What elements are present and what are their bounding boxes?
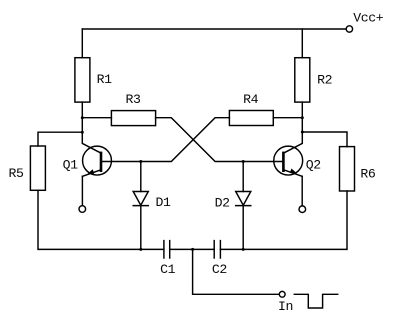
node junction R4 tap xyxy=(301,116,304,119)
svg-text:D2: D2 xyxy=(215,195,230,210)
svg-text:Q1: Q1 xyxy=(63,157,79,172)
wire R3 to Q2 base (cross link) xyxy=(156,118,282,162)
pulse waveform symbol xyxy=(294,294,337,308)
wire D2 anode lead xyxy=(242,162,244,192)
svg-text:Q2: Q2 xyxy=(306,158,321,173)
diode D1 xyxy=(133,192,148,206)
wire R2 top lead xyxy=(301,29,303,58)
resistor R5 xyxy=(30,146,45,190)
wire to R4 xyxy=(273,117,302,119)
svg-text:C2: C2 xyxy=(212,262,227,277)
node junction input tap xyxy=(191,248,194,251)
capacitor C2 xyxy=(214,241,220,258)
wire R1 bottom to Q1 collector xyxy=(82,102,100,153)
capacitor C1 xyxy=(164,241,170,258)
wire top power rail xyxy=(82,28,346,30)
svg-text:R1: R1 xyxy=(97,72,113,87)
resistor R3 xyxy=(111,111,155,126)
transistor Q1 xyxy=(82,146,111,176)
node junction D2 top xyxy=(242,160,245,163)
svg-text:R6: R6 xyxy=(360,166,376,181)
node junction R3 tap xyxy=(81,116,84,119)
svg-text:R2: R2 xyxy=(317,72,332,87)
svg-text:C1: C1 xyxy=(160,262,176,277)
Q1 emitter terminal xyxy=(79,206,86,213)
resistor R1 xyxy=(75,58,90,102)
node junction R5 tap xyxy=(81,131,84,134)
wire D2 cathode lead xyxy=(242,206,244,250)
svg-text:R5: R5 xyxy=(9,166,25,181)
wire R4 to Q1 base (cross link) xyxy=(102,118,230,162)
Q2 emitter terminal xyxy=(299,206,306,213)
wire R2 bottom to Q2 collector xyxy=(285,102,303,153)
wire R5 bottom to rail xyxy=(38,190,164,249)
resistor R4 xyxy=(229,111,273,126)
wire to R3 xyxy=(82,117,111,119)
wire D1 anode lead xyxy=(140,162,142,192)
resistor R6 xyxy=(340,147,355,191)
wire D1 cathode lead xyxy=(140,206,142,250)
node junction D1 bottom xyxy=(139,248,142,251)
svg-text:Vcc+: Vcc+ xyxy=(353,11,384,26)
node junction R6 tap xyxy=(301,131,304,134)
wire between C1 and C2 xyxy=(170,248,215,250)
Vcc+ terminal xyxy=(346,26,352,32)
svg-text:R4: R4 xyxy=(243,92,259,107)
svg-text:D1: D1 xyxy=(156,195,172,210)
svg-text:In: In xyxy=(278,299,293,314)
wire to R5 xyxy=(38,132,82,146)
resistor R2 xyxy=(295,58,310,102)
transistor Q2 xyxy=(274,146,303,176)
wire Q2 emitter lead xyxy=(301,176,303,206)
wire to R6 xyxy=(302,132,347,147)
wire Q1 emitter lead xyxy=(81,176,83,205)
wire input lead xyxy=(193,249,280,294)
wire R1 top lead xyxy=(81,29,83,58)
In terminal xyxy=(279,291,285,297)
diode D2 xyxy=(236,192,251,206)
svg-text:R3: R3 xyxy=(126,92,142,107)
wire R6 bottom to rail xyxy=(220,191,347,249)
node junction D2 bottom xyxy=(242,248,245,251)
node junction D1 top xyxy=(139,160,142,163)
